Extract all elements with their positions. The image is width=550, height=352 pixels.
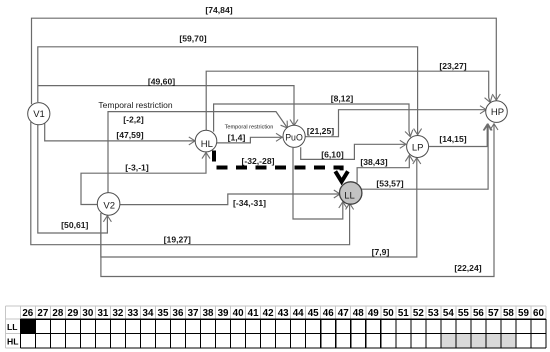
svg-text:27: 27 — [37, 308, 48, 319]
arrowhead bold into LL top — [335, 171, 348, 181]
svg-text:[47,59]: [47,59] — [116, 130, 143, 140]
svg-text:[8,12]: [8,12] — [331, 94, 354, 104]
wire HL to LL dashed [-32,-28] — [214, 151, 342, 174]
svg-text:[19,27]: [19,27] — [164, 234, 191, 244]
wire HL to PuO [1,4] — [217, 137, 283, 143]
svg-text:[-32,-28]: [-32,-28] — [242, 156, 275, 166]
svg-text:53: 53 — [428, 308, 439, 319]
svg-text:31: 31 — [97, 308, 108, 319]
table grid (faint gridlines for header row and label column) — [6, 306, 547, 348]
svg-text:[53,57]: [53,57] — [376, 179, 403, 189]
svg-text:Temporal restriction: Temporal restriction — [225, 125, 274, 131]
svg-text:26: 26 — [22, 308, 33, 319]
svg-text:HL: HL — [7, 336, 18, 346]
svg-text:44: 44 — [293, 308, 304, 319]
svg-text:[38,43]: [38,43] — [360, 157, 387, 167]
wire V2 to HL [-3,-1] — [81, 152, 206, 204]
svg-text:55: 55 — [458, 308, 469, 319]
svg-text:[7,9]: [7,9] — [372, 247, 390, 257]
wire PuO to HP [21,25] — [304, 110, 486, 137]
table header numbers + row labels — [7, 308, 544, 346]
svg-text:[22,24]: [22,24] — [454, 263, 481, 273]
node HP — [486, 101, 508, 123]
svg-text:38: 38 — [203, 308, 214, 319]
svg-text:[59,70]: [59,70] — [179, 34, 206, 44]
svg-text:51: 51 — [398, 308, 409, 319]
wire PuO to LP [6,10] — [301, 144, 406, 159]
node V2 — [97, 193, 120, 216]
svg-text:30: 30 — [82, 308, 93, 319]
svg-text:[-2,2]: [-2,2] — [123, 114, 144, 124]
svg-text:58: 58 — [503, 308, 514, 319]
svg-text:46: 46 — [323, 308, 334, 319]
svg-text:LL: LL — [344, 190, 355, 201]
svg-text:[21,25]: [21,25] — [307, 126, 334, 136]
wire LP to HP [14,15] — [428, 124, 487, 146]
svg-text:49: 49 — [368, 308, 379, 319]
wire V1 to LP [59,70] — [38, 47, 418, 135]
wire V1 to V2 [50,61] — [38, 124, 108, 233]
svg-text:33: 33 — [127, 308, 138, 319]
svg-text:48: 48 — [353, 308, 364, 319]
table header gridline verticals — [20, 306, 546, 319]
svg-text:[14,15]: [14,15] — [439, 134, 466, 144]
svg-text:[23,27]: [23,27] — [439, 61, 466, 71]
svg-text:[1,4]: [1,4] — [228, 133, 246, 143]
svg-text:40: 40 — [233, 308, 244, 319]
black filled cell LL/26 — [21, 319, 35, 333]
svg-text:47: 47 — [338, 308, 349, 319]
svg-text:LL: LL — [7, 322, 18, 332]
wire HL to HP [23,27] — [206, 71, 490, 131]
svg-text:39: 39 — [218, 308, 229, 319]
wire LL to HP [53,57] — [361, 124, 488, 189]
svg-text:HL: HL — [201, 139, 213, 150]
svg-text:43: 43 — [278, 308, 289, 319]
node V1 — [28, 103, 50, 125]
wire V2 to LL [-34,-31] — [119, 194, 340, 205]
gray cells HL row 54-58 — [441, 334, 516, 348]
svg-text:28: 28 — [52, 308, 63, 319]
svg-text:V2: V2 — [103, 201, 115, 212]
wire V1 to HP [74,84] — [32, 18, 497, 104]
svg-text:60: 60 — [533, 308, 544, 319]
svg-text:HP: HP — [491, 107, 504, 118]
svg-text:56: 56 — [473, 308, 484, 319]
wire V2 to PuO [-2,2] — [108, 112, 287, 194]
wire LL to LP [38,43] — [357, 155, 409, 183]
svg-text:29: 29 — [67, 308, 78, 319]
svg-text:37: 37 — [188, 308, 199, 319]
svg-text:LP: LP — [412, 142, 424, 153]
node HL — [195, 130, 217, 152]
svg-text:59: 59 — [518, 308, 529, 319]
svg-text:57: 57 — [488, 308, 499, 319]
svg-text:50: 50 — [383, 308, 394, 319]
wire V1 to PuO [49,60] — [38, 86, 294, 126]
svg-text:V1: V1 — [33, 109, 45, 120]
svg-text:42: 42 — [263, 308, 274, 319]
svg-text:[-34,-31]: [-34,-31] — [233, 198, 266, 208]
svg-text:41: 41 — [248, 308, 259, 319]
node PuO — [283, 125, 305, 147]
svg-text:[50,61]: [50,61] — [61, 220, 88, 230]
node LL (gray) — [340, 182, 362, 204]
svg-text:54: 54 — [443, 308, 454, 319]
svg-text:52: 52 — [413, 308, 424, 319]
svg-text:36: 36 — [173, 308, 184, 319]
wire HL to LP [8,12] — [214, 104, 411, 137]
svg-text:Temporal restriction: Temporal restriction — [98, 100, 172, 110]
svg-text:PuO: PuO — [285, 132, 303, 142]
wire V2 to HP [22,24] — [101, 124, 494, 277]
svg-text:35: 35 — [158, 308, 169, 319]
svg-text:45: 45 — [308, 308, 319, 319]
svg-text:32: 32 — [112, 308, 123, 319]
wire V1 to HL [47,59] — [45, 122, 195, 141]
svg-text:[49,60]: [49,60] — [148, 77, 175, 87]
svg-text:[74,84]: [74,84] — [205, 5, 232, 15]
svg-text:[6,10]: [6,10] — [321, 150, 344, 160]
svg-text:34: 34 — [143, 308, 154, 319]
table data area black borders — [20, 319, 546, 348]
wire V1 to LL [19,27] — [31, 122, 350, 245]
wire V2 to LP [7,9] — [101, 158, 417, 257]
svg-text:[-3,-1]: [-3,-1] — [125, 163, 149, 173]
wire PuO to LL (unlabeled underpass) — [293, 148, 343, 219]
node LP — [407, 136, 429, 158]
